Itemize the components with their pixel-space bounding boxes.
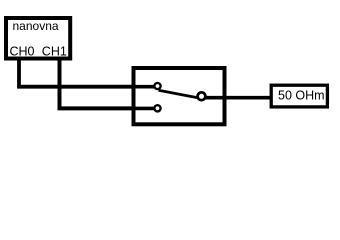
switch arm	[159, 90, 200, 98]
switch contact top-left	[154, 83, 160, 89]
wire CH1 pin and lower horizontal to switch	[60, 58, 158, 108]
switch box S1	[134, 68, 225, 124]
wire CH0 pin and upper horizontal to switch	[19, 58, 158, 87]
svg-text:CH0: CH0	[10, 45, 35, 59]
svg-text:CH1: CH1	[42, 45, 67, 59]
svg-text:nanovna: nanovna	[13, 19, 59, 33]
wire switch to load	[224, 96, 271, 100]
wire stub top-left contact	[133, 85, 158, 89]
wire stub right contact to border	[202, 96, 226, 100]
wire stub bottom-left contact	[133, 107, 158, 111]
svg-text:50 OHm: 50 OHm	[278, 89, 325, 103]
switch contact right	[198, 92, 206, 100]
switch contact bottom-left	[154, 105, 160, 111]
load box 50 Ohm	[271, 85, 327, 107]
nanovna box U1	[6, 18, 70, 59]
